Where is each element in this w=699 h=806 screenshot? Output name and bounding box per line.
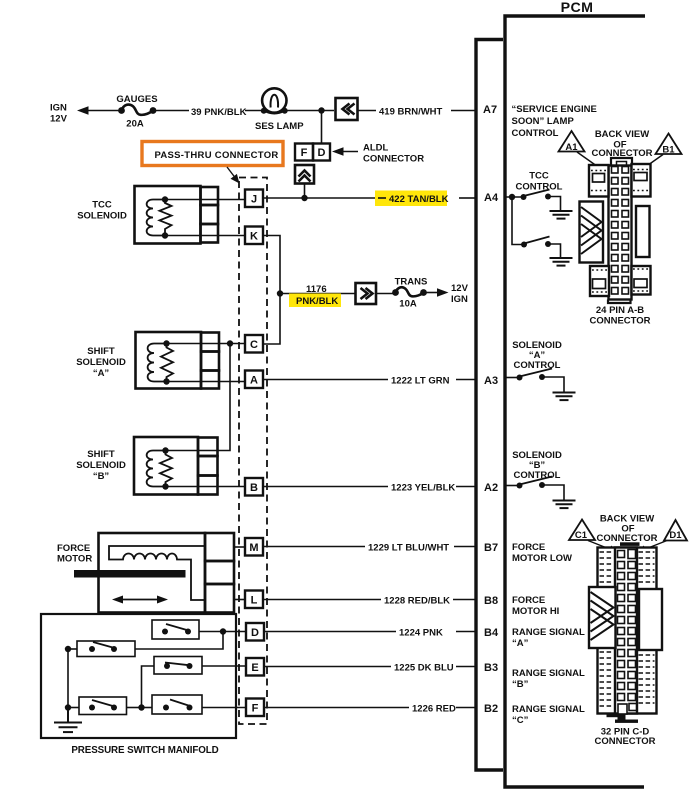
label PRESSURE SWITCH MANIFOLD (71, 745, 218, 756)
svg-text:12V: 12V (50, 114, 68, 125)
switch PSM 1 (152, 620, 246, 639)
callout triangle D1 (637, 520, 688, 553)
svg-text:1226 RED: 1226 RED (412, 704, 456, 715)
TCC solenoid coil (147, 200, 172, 236)
PCM outer boundary (505, 16, 645, 787)
24 pin A-B connector header text (591, 129, 652, 159)
label 419 BRN/WHT (379, 107, 443, 118)
pin B3 (484, 662, 498, 674)
dashed pin field right (639, 552, 655, 703)
svg-text:CONTROL: CONTROL (516, 182, 563, 193)
central strip (609, 166, 632, 300)
label RANGE SIGNAL A (512, 627, 585, 649)
svg-text:D1: D1 (669, 530, 682, 541)
svg-text:TRANS: TRANS (395, 277, 428, 288)
switch PSM 4 (68, 697, 142, 715)
in-line connector symbol under F (double chevron up) (295, 165, 314, 184)
pin B (245, 478, 263, 496)
in-line connector symbol 419 (double chevron left) (336, 98, 358, 120)
wire IGN feed row (80, 110, 475, 112)
connector 32 pin C-D body (589, 542, 662, 723)
connector 24 pin A-B body (580, 158, 651, 303)
in-line connector symbol 1176 (double chevron right) (356, 283, 377, 304)
arrow to IGN 12V (77, 106, 89, 114)
pin M (234, 538, 263, 556)
wire 1228 RED/BLK (263, 599, 475, 601)
label FORCE MOTOR HI (512, 595, 559, 617)
svg-text:12V: 12V (451, 283, 469, 294)
label TCC CONTROL (516, 171, 563, 193)
wire shift B bottom to pin B (166, 486, 246, 488)
svg-text:A1: A1 (565, 142, 578, 153)
svg-text:“C”: “C” (512, 715, 529, 726)
ground TCC 1 (550, 211, 573, 219)
switch solenoid B control (506, 477, 564, 501)
svg-text:“B”: “B” (512, 679, 529, 690)
svg-text:419 BRN/WHT: 419 BRN/WHT (379, 107, 443, 118)
pin A2 (484, 482, 498, 494)
label SOLENOID B CONTROL (512, 450, 562, 481)
label 1226 RED (412, 704, 456, 715)
ground TCC 2 (550, 258, 573, 266)
left bottom block (590, 266, 609, 296)
wire SES junction to ALDL pin D (321, 111, 323, 144)
node 1176 junction (277, 290, 283, 296)
svg-text:MOTOR HI: MOTOR HI (512, 606, 559, 617)
svg-text:SHIFT: SHIFT (87, 346, 115, 357)
svg-text:1224 PNK: 1224 PNK (399, 628, 443, 639)
switch TCC control 1 (506, 190, 561, 211)
right bottom block (632, 266, 651, 295)
svg-text:E: E (251, 662, 258, 674)
svg-text:B8: B8 (484, 595, 498, 607)
bottom tab (608, 300, 631, 304)
PCM inner boundary (476, 40, 503, 771)
pin K (245, 227, 263, 245)
wire chevron box to 422 wire (304, 184, 306, 199)
label FORCE MOTOR (57, 543, 92, 565)
svg-text:1176: 1176 (306, 284, 327, 295)
shift A coil (148, 344, 173, 382)
solenoid TCC box (135, 186, 219, 244)
label 1225 DK BLU (394, 663, 454, 674)
wire TCC top to pin J (165, 199, 245, 201)
svg-text:CONNECTOR: CONNECTOR (589, 316, 650, 327)
svg-text:TCC: TCC (92, 200, 112, 211)
svg-text:C1: C1 (575, 530, 588, 541)
svg-text:C: C (250, 339, 258, 351)
svg-text:A: A (250, 375, 258, 387)
node SES junction (318, 107, 324, 113)
pin B4 (484, 627, 499, 639)
ALDL pins F D (295, 144, 330, 161)
svg-text:K: K (250, 231, 258, 243)
force motor armature bar (74, 570, 186, 578)
label SOLENOID A CONTROL (512, 340, 562, 371)
svg-text:“A”: “A” (512, 638, 529, 649)
pin A4 (484, 192, 499, 204)
top tab (611, 158, 632, 166)
left protruding block (589, 587, 616, 648)
svg-text:CONNECTOR: CONNECTOR (363, 154, 424, 165)
wire 1176 node down to C (263, 294, 280, 345)
PCM label (561, 0, 594, 16)
svg-text:SOLENOID: SOLENOID (76, 460, 126, 471)
pin C (245, 335, 263, 353)
callout triangle B1 (633, 134, 682, 177)
svg-text:PASS-THRU CONNECTOR: PASS-THRU CONNECTOR (154, 150, 278, 161)
svg-text:B7: B7 (484, 542, 498, 554)
svg-text:SOLENOID: SOLENOID (76, 357, 126, 368)
label SHIFT SOLENOID A (76, 346, 126, 379)
wire 1223 YEL/BLK (263, 486, 475, 488)
svg-text:24 PIN A-B: 24 PIN A-B (596, 305, 644, 316)
svg-text:1225 DK BLU: 1225 DK BLU (394, 663, 454, 674)
pin squares (612, 167, 629, 295)
label 32 PIN C-D CONNECTOR (594, 727, 655, 748)
svg-text:“SERVICE ENGINE: “SERVICE ENGINE (512, 104, 597, 115)
pin B2 (484, 703, 498, 715)
left middle block with chevron hatch (580, 202, 604, 263)
svg-text:A2: A2 (484, 482, 498, 494)
label IGN 12V (50, 103, 68, 125)
pin A3 (484, 375, 498, 387)
label 24 PIN A-B CONNECTOR (589, 305, 650, 327)
top tab (620, 542, 640, 546)
svg-text:1229 LT BLU/WHT: 1229 LT BLU/WHT (368, 543, 449, 554)
label 1224 PNK (399, 628, 443, 639)
svg-text:1223 YEL/BLK: 1223 YEL/BLK (391, 483, 455, 494)
svg-text:L: L (251, 595, 258, 607)
pin F (246, 699, 264, 717)
svg-text:422 TAN/BLK: 422 TAN/BLK (389, 194, 449, 205)
right middle block (636, 206, 650, 257)
pin L (234, 591, 263, 609)
force motor box (99, 533, 235, 613)
pressure switch manifold box (41, 614, 236, 738)
node C junction (227, 340, 233, 346)
svg-text:MOTOR: MOTOR (57, 554, 92, 565)
pin D (246, 623, 264, 641)
svg-text:TCC: TCC (529, 171, 549, 182)
wire 422 TAN/BLK (263, 197, 475, 199)
label 1176 PNK/BLK highlighted (289, 284, 341, 307)
svg-text:“B”: “B” (93, 471, 110, 482)
force motor travel arrow (112, 596, 168, 604)
svg-text:PCM: PCM (561, 0, 594, 16)
node PSM D junction (220, 628, 226, 634)
wire 1176 branch (280, 293, 356, 295)
svg-text:J: J (251, 194, 257, 206)
svg-text:SHIFT: SHIFT (87, 449, 115, 460)
wire to switch TCC control 2 (512, 197, 524, 245)
svg-text:RANGE SIGNAL: RANGE SIGNAL (512, 668, 585, 679)
callout triangle A1 (559, 131, 608, 174)
svg-text:IGN: IGN (451, 294, 468, 305)
svg-text:“A”: “A” (93, 368, 110, 379)
svg-text:CONNECTOR: CONNECTOR (594, 736, 655, 747)
lamp SES (255, 88, 304, 132)
svg-text:CONTROL: CONTROL (514, 360, 561, 371)
svg-text:SOLENOID: SOLENOID (77, 211, 127, 222)
label 1222 LT GRN (391, 376, 450, 387)
svg-text:10A: 10A (399, 299, 417, 310)
node J junction (301, 195, 307, 201)
arrow ALDL CONNECTOR (332, 143, 424, 165)
svg-text:SES LAMP: SES LAMP (255, 121, 304, 132)
svg-text:FORCE: FORCE (57, 543, 90, 554)
svg-text:SOON” LAMP: SOON” LAMP (512, 116, 575, 127)
pin A (245, 371, 263, 389)
box PASS-THRU CONNECTOR callout (142, 142, 283, 166)
wire 1225 DK BLU (264, 666, 475, 668)
right top block (632, 164, 651, 197)
32 pin C-D connector header text (596, 514, 657, 545)
central strip (615, 548, 637, 714)
svg-text:B: B (250, 482, 258, 494)
wire shift A bottom to pin A (167, 380, 264, 382)
solenoid shift B box (134, 437, 218, 495)
shift B coil (147, 451, 172, 487)
svg-text:1222 LT GRN: 1222 LT GRN (391, 376, 450, 387)
label 422 TAN/BLK highlighted (375, 191, 449, 207)
wire shift B top to C node (166, 344, 231, 451)
svg-text:A3: A3 (484, 375, 498, 387)
wire 1222 LT GRN (263, 379, 475, 381)
svg-text:MOTOR LOW: MOTOR LOW (512, 553, 572, 564)
wire 1224 PNK (264, 631, 475, 633)
label 39 PNK/BLK (191, 107, 247, 118)
fuse TRANS 10A (376, 277, 427, 310)
left top block (589, 165, 609, 197)
svg-text:20A: 20A (126, 119, 144, 130)
wire 1226 RED (264, 707, 475, 709)
label RANGE SIGNAL C (512, 704, 585, 726)
node PSM F junction (138, 704, 144, 710)
bottom tab (607, 714, 623, 717)
pin B8 (484, 595, 498, 607)
svg-text:FORCE: FORCE (512, 595, 545, 606)
arrow to 12V IGN (426, 283, 469, 305)
svg-text:FORCE: FORCE (512, 542, 545, 553)
switch PSM 5 (142, 695, 247, 714)
pass-thru connector dashed column (239, 178, 267, 725)
ground PSM (54, 708, 82, 732)
switch PSM 2 (68, 641, 135, 657)
label 1228 RED/BLK (384, 596, 450, 607)
label SERVICE ENGINE SOON LAMP CONTROL (512, 104, 597, 139)
svg-text:A7: A7 (483, 104, 497, 116)
solenoid shift A box (136, 332, 220, 389)
svg-text:39 PNK/BLK: 39 PNK/BLK (191, 107, 247, 118)
svg-text:PNK/BLK: PNK/BLK (296, 296, 338, 307)
pin J (245, 190, 263, 208)
svg-text:A4: A4 (484, 192, 499, 204)
wire PSM 2 to D junction (135, 632, 223, 650)
svg-text:ALDL: ALDL (363, 143, 389, 154)
dashed pin field left (600, 552, 614, 706)
pin E (246, 658, 264, 676)
svg-text:IGN: IGN (50, 103, 67, 114)
right protruding block (639, 589, 662, 650)
label TCC SOLENOID (77, 200, 127, 222)
label FORCE MOTOR LOW (512, 542, 572, 564)
wire PSM left bus (65, 646, 71, 711)
pin squares (618, 550, 637, 715)
arrow callout to pass-thru column (227, 167, 240, 184)
svg-text:CONTROL: CONTROL (512, 128, 559, 139)
svg-text:RANGE SIGNAL: RANGE SIGNAL (512, 704, 585, 715)
ground solenoid A (553, 393, 576, 401)
svg-text:B3: B3 (484, 662, 498, 674)
label 1229 LT BLU/WHT (368, 543, 449, 554)
svg-text:D: D (251, 627, 259, 639)
switch TCC control 2 (521, 237, 561, 258)
fuse GAUGES 20A (116, 94, 157, 130)
switch solenoid A control (506, 369, 564, 393)
svg-text:B4: B4 (484, 627, 499, 639)
pin A7 (483, 104, 497, 116)
svg-text:D: D (318, 147, 326, 159)
wire 1229 LT BLU/WHT (263, 546, 475, 548)
label RANGE SIGNAL B (512, 668, 585, 690)
wire K to 1176 node (263, 236, 280, 294)
svg-text:1228 RED/BLK: 1228 RED/BLK (384, 596, 450, 607)
force motor coil path (109, 546, 205, 600)
wire shift A top to pin C (167, 343, 246, 345)
svg-text:F: F (301, 147, 308, 159)
svg-text:BACK VIEW: BACK VIEW (595, 129, 649, 140)
label SHIFT SOLENOID B (76, 449, 126, 482)
pin B7 (484, 542, 498, 554)
wire TCC bottom to pin K (165, 235, 245, 237)
svg-text:F: F (252, 703, 259, 715)
svg-text:RANGE SIGNAL: RANGE SIGNAL (512, 627, 585, 638)
svg-text:PRESSURE SWITCH MANIFOLD: PRESSURE SWITCH MANIFOLD (71, 745, 218, 756)
switch PSM 3 (142, 657, 247, 708)
svg-text:B1: B1 (662, 145, 675, 156)
svg-text:B2: B2 (484, 703, 498, 715)
label 1223 YEL/BLK (391, 483, 455, 494)
callout triangle C1 (569, 520, 619, 554)
svg-text:M: M (249, 542, 258, 554)
ground solenoid B (553, 501, 576, 509)
svg-text:GAUGES: GAUGES (116, 94, 157, 105)
